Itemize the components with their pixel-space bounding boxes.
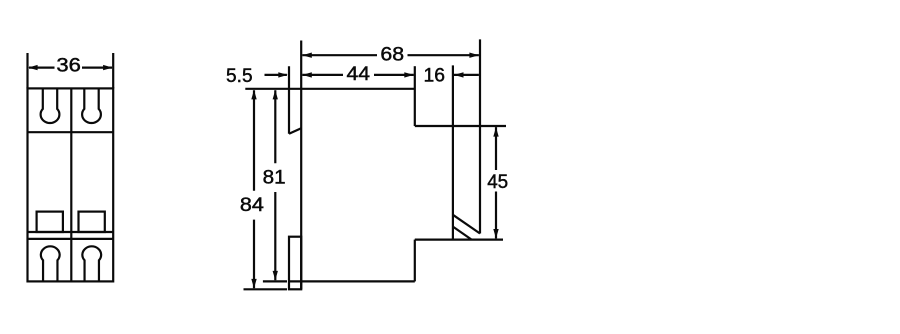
svg-text:36: 36: [56, 56, 81, 77]
svg-text:84: 84: [240, 195, 264, 216]
body top edge (with 84/81 extension to left): [245, 88, 414, 90]
top terminal section line: [28, 131, 114, 133]
top keyhole terminal pole1: [41, 88, 60, 123]
arrowhead 16 (outside, pointing left): [454, 72, 464, 77]
dim 44 line segments: [302, 74, 343, 76]
bottom front horizontal (with 45 extension to right): [415, 239, 503, 241]
arrowhead 45 up: [493, 127, 498, 137]
arrowhead 5.5 (pointing right): [278, 72, 288, 77]
dim 16 outside arrow shaft: [454, 74, 479, 76]
arrowhead 44 right: [404, 72, 414, 77]
arrowhead 68 right: [469, 53, 479, 58]
bottom step vertical: [414, 240, 416, 282]
middle/lower section line: [28, 231, 114, 233]
svg-text:68: 68: [380, 44, 404, 65]
lower band line: [28, 238, 114, 240]
arrowhead 68 left: [302, 53, 312, 58]
toggle handle pole1: [37, 212, 63, 232]
top step horizontal (with 45 extension to right): [415, 125, 506, 127]
svg-text:5.5: 5.5: [226, 66, 253, 87]
toggle handle pole2: [79, 212, 105, 232]
bottom DIN clip tab: [289, 237, 301, 290]
dim 5.5 arrow shaft: [265, 74, 287, 76]
svg-text:44: 44: [347, 64, 371, 85]
bottom keyhole terminal pole1: [41, 246, 60, 281]
dim 36 extension line left: [26, 53, 28, 88]
dim 84 extension stub: [244, 288, 288, 290]
top step vertical (with 44/16 extension above): [414, 66, 416, 126]
body bottom edge: [289, 280, 415, 282]
back face vertical (68/44 extension above): [300, 41, 302, 290]
dim 36 line right segment: [82, 66, 112, 68]
arrowhead 36 right: [103, 65, 113, 70]
pole divider line: [70, 88, 72, 281]
top DIN hook outer edge (5.5 extension above): [288, 66, 290, 133]
arrowhead 44 left: [302, 72, 312, 77]
arrowhead 81 up: [273, 90, 278, 100]
dim 81 line segments: [274, 90, 276, 163]
dim 45 line segments: [495, 127, 497, 170]
breaker body outline: [28, 88, 114, 281]
dim 36 extension line right: [112, 53, 114, 88]
chamfer diagonal upper: [453, 215, 480, 234]
dim 84 line segments: [253, 90, 255, 191]
bottom keyhole terminal pole2: [82, 246, 101, 281]
arrowhead 84 down: [251, 279, 256, 289]
top DIN hook diagonal cut: [289, 128, 301, 134]
front face vertical (68 extension above): [479, 39, 481, 233]
dim 36 line left segment: [29, 66, 55, 68]
svg-text:45: 45: [487, 172, 508, 193]
svg-text:16: 16: [424, 66, 446, 87]
svg-text:81: 81: [263, 168, 286, 189]
chamfer diagonal lower: [453, 227, 472, 240]
arrowhead 81 down: [273, 271, 278, 281]
arrowhead 36 left: [28, 65, 37, 70]
dim 68 line segments: [302, 54, 377, 56]
arrowhead 84 up: [251, 90, 256, 100]
inner front edge (16 extension above): [452, 65, 454, 239]
dim 81 extension stub: [263, 280, 287, 282]
arrowhead 45 down: [493, 229, 498, 239]
top keyhole terminal pole2: [82, 88, 101, 123]
